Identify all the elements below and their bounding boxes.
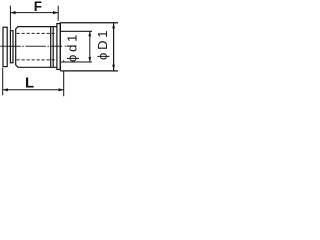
svg-text:ϕd1: ϕd1: [64, 32, 79, 62]
svg-text:ϕD1: ϕD1: [95, 28, 110, 60]
svg-text:L: L: [25, 74, 34, 91]
svg-text:F: F: [34, 0, 42, 14]
